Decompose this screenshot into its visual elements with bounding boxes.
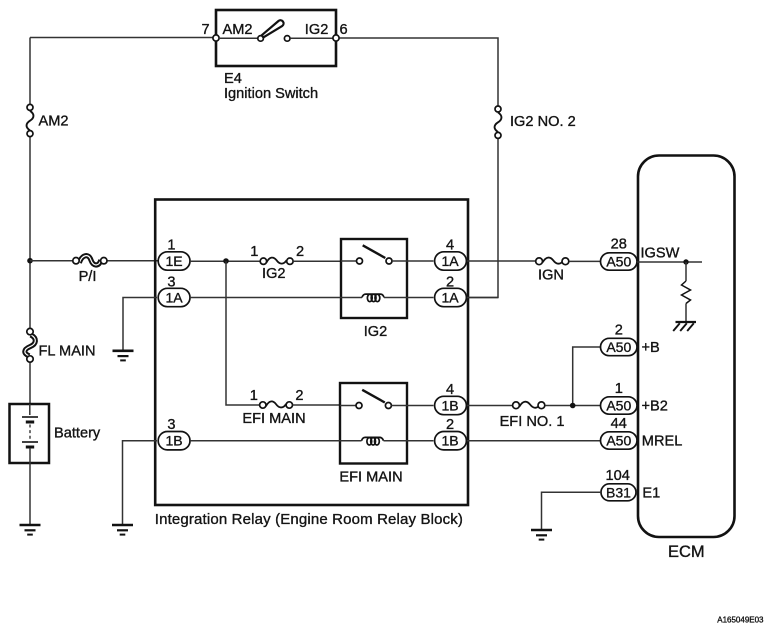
wire junction down to EFI MAIN fuse row [226, 261, 259, 405]
wire P/I to relay 1E [107, 260, 158, 262]
ground E1 [531, 530, 552, 540]
svg-text:3: 3 [167, 275, 175, 291]
connector 1E pin 1 [158, 252, 190, 270]
switch contact SW1 [219, 20, 333, 41]
wire 1B pin3 to ground [123, 441, 158, 525]
pin 7 ignition switch [213, 35, 219, 41]
svg-text:A50: A50 [606, 253, 631, 269]
svg-text:P/I: P/I [79, 269, 97, 285]
svg-text:EFI MAIN: EFI MAIN [339, 470, 402, 486]
svg-text:104: 104 [606, 468, 630, 484]
node junction +B tap [570, 403, 576, 409]
connector 1A pin 2 [435, 288, 467, 306]
svg-text:IG2: IG2 [305, 22, 329, 38]
connector B31 pin 104 [601, 484, 636, 501]
wire 1A pin4 to IGN fuse [467, 260, 536, 262]
svg-text:ECM: ECM [668, 543, 705, 561]
wire ignition switch pin 6 to IG2 NO.2 fuse column [336, 38, 498, 106]
svg-text:IG2: IG2 [364, 324, 388, 340]
connector A50 pin 28 [601, 253, 638, 270]
relay EFI MAIN coil [191, 437, 434, 445]
svg-text:IGSW: IGSW [641, 246, 680, 262]
wire battery to ground [29, 463, 31, 525]
connector 1B pin 2 [435, 432, 467, 450]
ground relay coil EFI MAIN [112, 525, 133, 535]
wire left column to battery [29, 362, 31, 404]
connector A50 pin 1 [601, 397, 638, 414]
svg-text:A50: A50 [606, 432, 631, 448]
ground relay coil IG2 [113, 351, 134, 361]
relay IG2 contact [341, 245, 434, 264]
wire 1B pin4 to EFI NO.1 fuse [467, 405, 513, 407]
ground battery [20, 525, 41, 535]
wire 1E to IG2 fuse [191, 260, 260, 262]
svg-text:2: 2 [446, 417, 454, 433]
svg-text:2: 2 [615, 322, 623, 338]
fuse IGN [536, 258, 569, 265]
fuse IG2 (relay block) [260, 258, 293, 265]
svg-text:6: 6 [340, 22, 348, 38]
relay IG2 coil [191, 294, 434, 302]
fuse AM2 [27, 104, 34, 136]
svg-text:1: 1 [167, 238, 175, 254]
svg-text:44: 44 [611, 416, 627, 432]
wire 1B pin2 to MREL [467, 440, 601, 442]
svg-text:1: 1 [250, 244, 258, 260]
wire IG2 NO.2 fuse to relay 1A pin 2 [468, 139, 498, 298]
svg-text:AM2: AM2 [223, 22, 253, 38]
svg-text:1B: 1B [165, 433, 182, 449]
svg-text:28: 28 [611, 237, 627, 253]
wire resistor to chassis ground [685, 304, 687, 322]
svg-text:2: 2 [446, 275, 454, 291]
svg-text:1: 1 [615, 381, 623, 397]
svg-text:IG2: IG2 [262, 266, 286, 282]
svg-text:1B: 1B [441, 433, 458, 449]
svg-text:1E: 1E [165, 253, 182, 269]
wire junction to resistor [685, 262, 687, 281]
connector A50 pin 2 [601, 338, 638, 355]
ECM box [638, 156, 735, 538]
svg-text:Ignition Switch: Ignition Switch [224, 86, 318, 102]
svg-text:1A: 1A [441, 290, 459, 306]
svg-text:A50: A50 [606, 339, 631, 355]
wire E1 to ground [542, 492, 602, 529]
svg-text:4: 4 [446, 237, 454, 253]
svg-text:EFI MAIN: EFI MAIN [242, 411, 305, 427]
svg-text:1B: 1B [441, 398, 458, 414]
svg-text:1: 1 [250, 388, 258, 404]
svg-text:Battery: Battery [54, 426, 101, 442]
svg-text:+B: +B [642, 340, 660, 356]
relay EFI MAIN box [340, 383, 407, 464]
svg-text:AM2: AM2 [39, 114, 69, 130]
svg-text:2: 2 [296, 244, 304, 260]
svg-text:4: 4 [446, 382, 454, 398]
wire top bus from battery column to ignition switch pin 7 [30, 37, 216, 39]
relay IG2 box [341, 239, 407, 318]
svg-text:1A: 1A [165, 290, 183, 306]
svg-text:2: 2 [295, 388, 303, 404]
ignition switch box E4 [216, 10, 336, 66]
svg-text:A50: A50 [606, 397, 631, 413]
battery B1 [10, 404, 50, 463]
svg-text:+B2: +B2 [642, 399, 668, 415]
wire EFI NO.1 to +B2 [545, 405, 601, 407]
svg-text:A165049E03: A165049E03 [717, 616, 764, 625]
wire IGN fuse to ECM IGSW [569, 260, 601, 262]
svg-text:MREL: MREL [642, 434, 683, 450]
svg-text:Integration Relay (Engine Room: Integration Relay (Engine Room Relay Blo… [155, 511, 463, 528]
wire left column mid segment [29, 137, 31, 328]
svg-text:E1: E1 [642, 485, 660, 501]
connector 1A pin 3 [158, 288, 190, 306]
svg-text:1A: 1A [441, 253, 459, 269]
svg-text:3: 3 [167, 417, 175, 433]
wire left column top segment [29, 38, 31, 105]
fusible link FL MAIN [25, 328, 35, 362]
fusible link P/I [73, 256, 107, 265]
chassis ground IGSW [673, 322, 696, 331]
connector A50 pin 44 [601, 432, 638, 449]
relay EFI MAIN contact [340, 390, 434, 409]
wire junction to P/I fusible link [30, 260, 73, 262]
wire IG2 fuse to IG2 relay [293, 260, 341, 262]
wire 1A pin2 to IG2 NO.2 column [467, 297, 498, 299]
wire EFI MAIN fuse to EFI relay [293, 404, 340, 406]
wire +B branch [573, 347, 601, 406]
resistor pull-down [682, 281, 691, 304]
node junction at P/I tap [27, 258, 33, 264]
svg-text:IG2 NO. 2: IG2 NO. 2 [510, 114, 576, 130]
integration relay box [155, 200, 468, 506]
wire 1A pin3 to ground [123, 298, 157, 351]
fuse EFI MAIN (relay block) [260, 401, 293, 408]
svg-text:FL MAIN: FL MAIN [39, 344, 96, 360]
svg-text:EFI NO. 1: EFI NO. 1 [500, 414, 565, 430]
connector 1B pin 4 [435, 396, 467, 414]
node junction IGSW [683, 259, 688, 264]
wire IGSW internal [637, 261, 702, 263]
fuse IG2 NO.2 [495, 106, 502, 138]
pin 6 ignition switch [333, 35, 339, 41]
fuse EFI NO.1 [513, 402, 545, 409]
svg-text:B31: B31 [606, 484, 631, 500]
svg-text:E4: E4 [224, 71, 242, 87]
connector 1B pin 3 [158, 432, 190, 450]
svg-text:7: 7 [201, 22, 209, 38]
svg-text:IGN: IGN [538, 268, 564, 284]
node junction at 1E branch [223, 258, 229, 264]
connector 1A pin 4 [435, 252, 467, 270]
